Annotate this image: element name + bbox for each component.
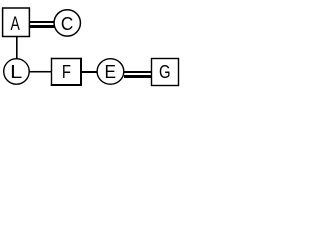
svg-text:A: A	[11, 14, 21, 35]
svg-text:C: C	[61, 14, 73, 34]
svg-text:F: F	[62, 62, 71, 82]
wire F-E (horizontal)	[82, 71, 98, 73]
edge A=C double line (top bar)	[30, 21, 56, 23]
wire L-F (horizontal)	[30, 71, 52, 73]
svg-text:G: G	[159, 62, 171, 82]
node L (circle)	[4, 59, 30, 85]
node F (square)	[51, 58, 82, 86]
node C (circle)	[54, 10, 80, 36]
svg-text:E: E	[105, 62, 117, 82]
edge A=C double line (bottom bar)	[30, 25, 56, 28]
edge E=G double line (bottom bar)	[124, 75, 152, 78]
F top edge	[51, 58, 82, 60]
node G (square)	[152, 59, 179, 86]
edge E=G double line (top bar)	[124, 71, 152, 73]
F left edge	[51, 58, 53, 86]
node A (square)	[3, 8, 30, 37]
svg-text:L: L	[10, 62, 22, 82]
F bottom edge	[51, 84, 82, 86]
wire A-L (vertical)	[16, 37, 18, 59]
F right edge	[80, 58, 82, 86]
node E (circle)	[97, 59, 124, 85]
